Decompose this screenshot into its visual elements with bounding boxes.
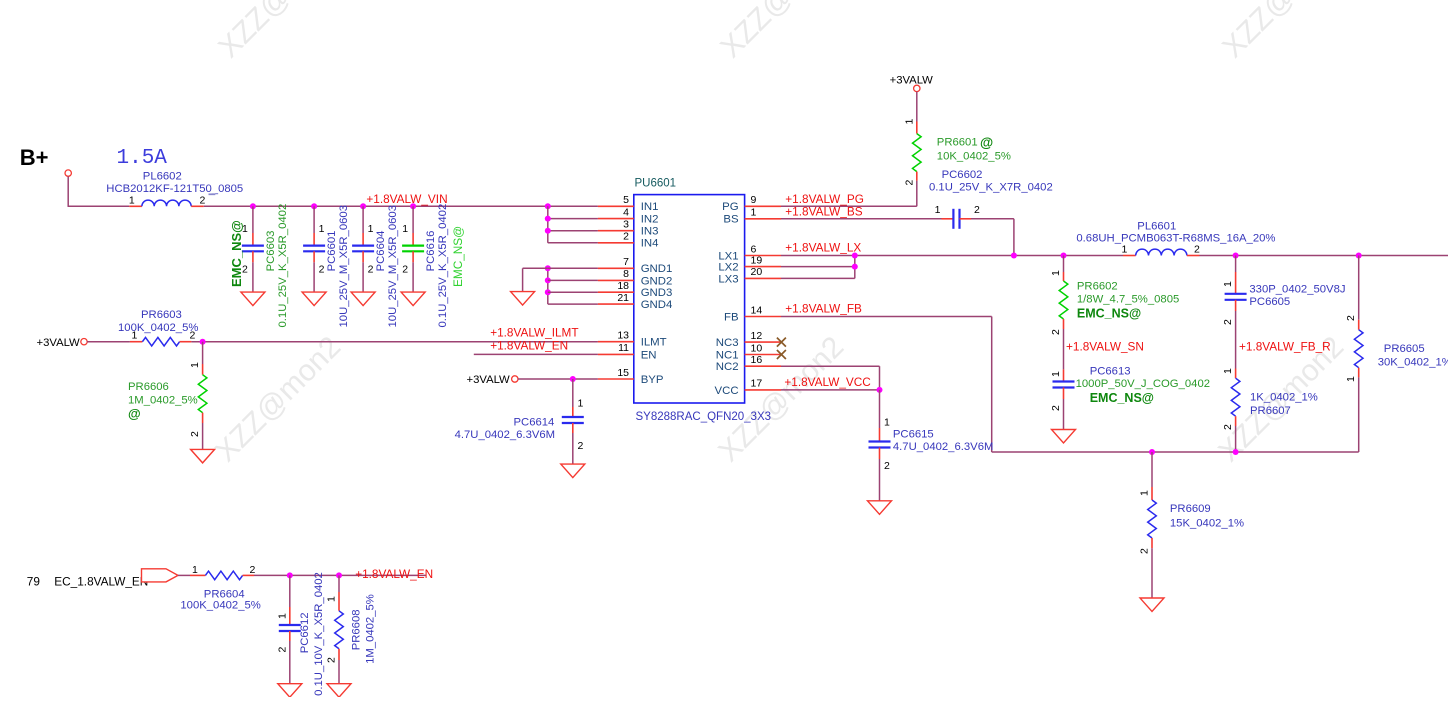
svg-text:2: 2 — [884, 460, 890, 472]
svg-text:2: 2 — [1222, 424, 1234, 430]
svg-text:1: 1 — [1222, 281, 1234, 287]
svg-text:2: 2 — [402, 264, 408, 276]
svg-text:+3VALW: +3VALW — [890, 75, 934, 87]
svg-text:2: 2 — [1050, 329, 1062, 335]
svg-text:79: 79 — [27, 575, 40, 589]
wire +1.8VALW_VIN net — [204, 205, 598, 207]
pin 6 LX1 — [718, 243, 781, 262]
svg-text:B+: B+ — [20, 145, 49, 170]
svg-text:2: 2 — [276, 647, 288, 653]
svg-text:LX3: LX3 — [718, 273, 738, 285]
capacitor PC6603 0.1U_25V_K_X5R_0402 — [229, 203, 289, 327]
svg-text:1: 1 — [368, 223, 374, 235]
wire feedback bottom bus — [992, 451, 1359, 453]
ground for PU6601 GND pins — [511, 292, 535, 306]
pin 18 GND3 — [598, 280, 672, 299]
wire +1.8VALW_FB_R net — [1235, 311, 1237, 369]
resistor PR6601 10K_0402_5% — [903, 92, 1011, 186]
svg-text:1: 1 — [1139, 490, 1151, 496]
svg-text:10K_0402_5%: 10K_0402_5% — [937, 150, 1011, 162]
svg-text:2: 2 — [623, 231, 629, 243]
resistor PR6606 1M_0402_5% — [128, 342, 207, 450]
svg-text:PR6607: PR6607 — [1250, 405, 1291, 417]
svg-text:PR6603: PR6603 — [141, 309, 182, 321]
svg-text:1: 1 — [1122, 243, 1128, 255]
svg-text:1: 1 — [903, 119, 915, 125]
svg-text:18: 18 — [617, 280, 629, 292]
svg-text:100K_0402_5%: 100K_0402_5% — [180, 600, 260, 612]
svg-text:GND1: GND1 — [641, 263, 673, 275]
capacitor PC6616 0.1U_25V_K_X5R_0402 — [402, 203, 465, 327]
pin 20 LX3 — [718, 266, 781, 285]
pin 12 NC3 — [716, 330, 781, 349]
svg-text:2: 2 — [1194, 243, 1200, 255]
svg-text:15: 15 — [617, 367, 629, 379]
svg-text:100K_0402_5%: 100K_0402_5% — [118, 322, 198, 334]
svg-text:2: 2 — [1222, 319, 1234, 325]
node GND junction — [545, 289, 551, 295]
node output junctions — [1233, 253, 1239, 259]
svg-text:4: 4 — [623, 206, 629, 218]
svg-text:EMC_NS@: EMC_NS@ — [1090, 391, 1154, 405]
wire BYP net — [518, 378, 598, 380]
node VIN junction at IN pins — [545, 203, 551, 209]
svg-text:1: 1 — [326, 596, 338, 602]
svg-text:NC3: NC3 — [716, 337, 739, 349]
pin 8 GND2 — [598, 268, 672, 287]
svg-text:GND4: GND4 — [641, 299, 673, 311]
svg-text:FB: FB — [724, 311, 739, 323]
svg-text:1M_0402_5%: 1M_0402_5% — [365, 594, 377, 664]
svg-text:4.7U_0402_6.3V6M: 4.7U_0402_6.3V6M — [455, 429, 555, 441]
svg-text:2: 2 — [200, 194, 206, 206]
svg-text:+1.8VALW_LX: +1.8VALW_LX — [785, 241, 861, 255]
svg-text:19: 19 — [751, 254, 763, 266]
svg-text:2: 2 — [1050, 405, 1062, 411]
svg-text:1.5A: 1.5A — [117, 147, 168, 170]
node ILMT junction — [200, 339, 206, 345]
svg-text:2: 2 — [1345, 315, 1357, 321]
svg-text:SY8288RAC_QFN20_3X3: SY8288RAC_QFN20_3X3 — [636, 411, 772, 423]
svg-text:EMC_NS@: EMC_NS@ — [1077, 306, 1141, 320]
node VCC junction — [877, 387, 883, 393]
node LX junctions — [852, 253, 858, 259]
pin 11 EN — [598, 342, 657, 361]
svg-text:+1.8VALW_VIN: +1.8VALW_VIN — [366, 192, 447, 206]
svg-text:IN1: IN1 — [641, 201, 659, 213]
svg-text:PR6608: PR6608 — [351, 609, 363, 650]
svg-text:1: 1 — [578, 397, 584, 409]
pin 5 IN1 — [598, 194, 659, 213]
svg-text:EN: EN — [641, 349, 657, 361]
op-amp/regulator IC PU6601 SY8288RAC — [634, 178, 771, 423]
svg-text:PC6612: PC6612 — [299, 612, 311, 653]
ground for PR6606 — [191, 449, 215, 463]
svg-text:11: 11 — [618, 342, 629, 354]
wire LX2/LX3 join — [781, 266, 855, 268]
svg-text:10U_25V_M_X5R_0603: 10U_25V_M_X5R_0603 — [387, 205, 399, 327]
svg-text:+1.8VALW_FB: +1.8VALW_FB — [785, 302, 862, 316]
svg-text:1: 1 — [1050, 371, 1062, 377]
ground for PC6612 — [278, 684, 302, 698]
svg-text:PR6602: PR6602 — [1077, 281, 1118, 293]
svg-text:PC6614: PC6614 — [514, 417, 555, 429]
wire BS cap to LX — [971, 218, 1014, 220]
svg-text:+1.8VALW_BS: +1.8VALW_BS — [785, 204, 862, 218]
wire to IN3 — [548, 230, 598, 232]
node EC_1.8VALW_EN port — [27, 569, 178, 589]
svg-text:GND3: GND3 — [641, 287, 673, 299]
resistor PR6609 15K_0402_1% — [1139, 452, 1245, 598]
capacitor PC6614 4.7U_0402_6.3V6M — [455, 379, 584, 464]
svg-text:0.1U_25V_K_X7R_0402: 0.1U_25V_K_X7R_0402 — [929, 181, 1053, 193]
svg-text:20: 20 — [751, 266, 763, 278]
wire to IN2 — [548, 218, 598, 220]
svg-text:+3VALW: +3VALW — [37, 337, 81, 349]
svg-text:0.1U_25V_K_X5R_0402: 0.1U_25V_K_X5R_0402 — [277, 204, 289, 328]
pin 2 IN4 — [598, 231, 659, 250]
ground for PC6601 — [302, 292, 326, 306]
wire IN fanout vertical — [547, 206, 549, 243]
svg-text:1: 1 — [1345, 376, 1357, 382]
svg-text:2: 2 — [326, 657, 338, 663]
resistor PR6608 1M_0402_5% — [326, 575, 377, 683]
wire NC2 to VCC — [781, 365, 880, 367]
svg-text:10U_25V_M_X5R_0603: 10U_25V_M_X5R_0603 — [338, 205, 350, 327]
svg-text:+3VALW: +3VALW — [467, 374, 511, 386]
wire GND fanout vertical — [547, 268, 549, 304]
svg-text:GND2: GND2 — [641, 275, 673, 287]
svg-text:1K_0402_1%: 1K_0402_1% — [1250, 391, 1318, 403]
ground for PC6603 — [241, 292, 265, 306]
svg-text:14: 14 — [751, 304, 763, 316]
ground for PR6608 — [327, 684, 351, 698]
svg-text:BS: BS — [723, 214, 739, 226]
wire GND pin — [548, 279, 598, 281]
svg-text:1: 1 — [129, 194, 135, 206]
node GND junction — [545, 277, 551, 283]
wire B+ drop — [67, 176, 69, 206]
node +3VALW terminal at BYP — [467, 374, 519, 386]
svg-text:0.68UH_PCMB063T-R68MS_16A_20%: 0.68UH_PCMB063T-R68MS_16A_20% — [1076, 233, 1275, 245]
svg-text:1: 1 — [884, 416, 890, 428]
svg-text:2: 2 — [189, 431, 201, 437]
svg-text:2: 2 — [903, 180, 915, 186]
capacitor PC6605 330P_0402_50V8J — [1222, 256, 1346, 326]
ground for PR6609 — [1140, 598, 1164, 612]
wire GND pin — [548, 291, 598, 293]
svg-text:0.1U_10V_K_X5R_0402: 0.1U_10V_K_X5R_0402 — [313, 572, 325, 696]
svg-text:IN4: IN4 — [641, 238, 659, 250]
svg-text:1/8W_4.7_5%_0805: 1/8W_4.7_5%_0805 — [1077, 294, 1179, 306]
ground for PC6613 — [1052, 430, 1076, 444]
svg-text:PC6602: PC6602 — [942, 169, 983, 181]
ground for PC6615 — [868, 501, 892, 515]
wire +1.8VALW_FB net — [781, 316, 992, 318]
svg-text:HCB2012KF-121T50_0805: HCB2012KF-121T50_0805 — [106, 183, 243, 195]
pin 13 ILMT — [598, 330, 667, 349]
svg-text:@: @ — [128, 406, 141, 421]
wire +1.8VALW_PG net — [781, 205, 917, 207]
svg-text:+1.8VALW_EN: +1.8VALW_EN — [490, 338, 568, 352]
svg-text:1: 1 — [402, 223, 408, 235]
wire B+ to PL6602 pin1 — [68, 205, 130, 207]
svg-text:1: 1 — [192, 564, 198, 576]
svg-text:5: 5 — [623, 194, 629, 206]
svg-text:PC6615: PC6615 — [893, 429, 934, 441]
pin 7 GND1 — [598, 256, 672, 275]
resistor PR6602 1/8W_4.7_5%_0805 — [1050, 256, 1179, 336]
node +3VALW terminal left — [37, 337, 88, 349]
svg-text:2: 2 — [578, 440, 584, 452]
svg-text:PC6603: PC6603 — [265, 231, 277, 272]
capacitor PC6613 1000P_50V_J_COG_0402 — [1050, 365, 1210, 429]
svg-text:2: 2 — [368, 264, 374, 276]
svg-text:1: 1 — [189, 362, 201, 368]
svg-text:21: 21 — [617, 292, 629, 304]
svg-text:+1.8VALW_VCC: +1.8VALW_VCC — [784, 375, 871, 389]
svg-text:4.7U_0402_6.3V6M: 4.7U_0402_6.3V6M — [893, 441, 994, 453]
pin 1 BS — [723, 207, 781, 226]
svg-text:EC_1.8VALW_EN: EC_1.8VALW_EN — [54, 575, 148, 589]
svg-text:+1.8VALW_EN: +1.8VALW_EN — [355, 567, 433, 581]
svg-text:+1.8VALW_SN: +1.8VALW_SN — [1066, 340, 1144, 354]
node +3VALW terminal top — [890, 75, 934, 92]
svg-text:2: 2 — [1139, 548, 1151, 554]
ground for PC6616 — [401, 292, 425, 306]
resistor PR6604 100K_0402_5% — [178, 564, 261, 612]
capacitor PC6604 10U_25V_M_X5R_0603 — [352, 203, 399, 327]
svg-text:2: 2 — [250, 564, 256, 576]
wire +1.8VALW_VCC net — [781, 389, 880, 391]
svg-text:BYP: BYP — [641, 374, 664, 386]
wire GND1 to ground — [523, 267, 548, 269]
svg-text:VCC: VCC — [715, 385, 739, 397]
svg-text:2: 2 — [190, 330, 196, 342]
node GND junction — [545, 265, 551, 271]
node B+ terminal — [20, 145, 72, 176]
svg-text:PL6602: PL6602 — [143, 170, 182, 182]
wire +1.8VALW_SN net — [1063, 329, 1065, 369]
svg-text:16: 16 — [751, 354, 763, 366]
capacitor PC6612 0.1U_10V_K_X5R_0402 — [276, 572, 325, 696]
svg-text:30K_0402_1%: 30K_0402_1% — [1378, 356, 1448, 368]
svg-text:2: 2 — [319, 264, 325, 276]
svg-text:PR6604: PR6604 — [204, 588, 245, 600]
wire +1.8VALW_EN bottom net — [254, 574, 426, 576]
node bottom bus junctions — [1149, 449, 1155, 455]
pin 15 BYP — [598, 367, 664, 386]
svg-text:8: 8 — [623, 268, 629, 280]
pin 3 IN3 — [598, 219, 659, 238]
svg-text:1: 1 — [319, 223, 325, 235]
svg-text:EMC_NS@: EMC_NS@ — [229, 220, 244, 287]
svg-text:17: 17 — [751, 378, 763, 390]
capacitor PC6615 4.7U_0402_6.3V6M — [869, 390, 994, 501]
pin 19 LX2 — [718, 254, 781, 273]
resistor PR6603 100K_0402_5% — [87, 309, 198, 346]
node BYP junction — [570, 376, 576, 382]
svg-text:1: 1 — [276, 613, 288, 619]
svg-text:PU6601: PU6601 — [635, 178, 677, 190]
resistor PR6607 1K_0402_1% — [1222, 368, 1318, 452]
svg-text:PR6605: PR6605 — [1384, 343, 1425, 355]
svg-text:1: 1 — [1222, 368, 1234, 374]
svg-text:7: 7 — [623, 256, 629, 268]
svg-text:NC1: NC1 — [716, 349, 739, 361]
svg-text:1: 1 — [1050, 270, 1062, 276]
svg-text:15K_0402_1%: 15K_0402_1% — [1170, 517, 1244, 529]
pin 16 NC2 — [716, 354, 781, 373]
ground for PC6614 — [561, 464, 585, 478]
wire ILMT net — [191, 341, 598, 343]
svg-text:IN3: IN3 — [641, 226, 659, 238]
pin 4 IN2 — [598, 206, 659, 225]
svg-text:PC6601: PC6601 — [326, 231, 338, 272]
svg-text:PC6605: PC6605 — [1249, 296, 1290, 308]
svg-text:PR6606: PR6606 — [128, 381, 169, 393]
svg-text:1M_0402_5%: 1M_0402_5% — [128, 395, 198, 407]
inductor PL6601 0.68UH — [1076, 221, 1275, 256]
no-connect X on NC1 — [777, 350, 786, 359]
capacitor PC6602 0.1U_25V_K_X7R_0402 — [929, 169, 1053, 229]
wire to IN4 — [548, 242, 598, 244]
svg-text:PR6609: PR6609 — [1170, 503, 1211, 515]
wire +1.8VALW_BS net — [781, 218, 942, 220]
node EN junctions — [287, 572, 293, 578]
svg-text:EMC_NS@: EMC_NS@ — [451, 226, 465, 287]
svg-text:PC6616: PC6616 — [425, 231, 437, 272]
svg-text:1: 1 — [132, 330, 138, 342]
svg-text:PR6601: PR6601 — [937, 137, 978, 149]
svg-text:PL6601: PL6601 — [1137, 221, 1176, 233]
svg-text:@: @ — [980, 135, 993, 150]
svg-text:13: 13 — [617, 330, 629, 342]
svg-text:PG: PG — [722, 201, 739, 213]
pin 17 VCC — [715, 378, 781, 397]
svg-text:1: 1 — [935, 204, 941, 216]
pin 9 PG — [722, 194, 781, 213]
pin 14 FB — [724, 304, 781, 323]
svg-text:LX2: LX2 — [718, 262, 738, 274]
svg-text:NC2: NC2 — [716, 361, 739, 373]
svg-text:0.1U_25V_K_X5R_0402: 0.1U_25V_K_X5R_0402 — [437, 204, 449, 328]
svg-text:12: 12 — [751, 330, 763, 342]
svg-text:2: 2 — [974, 204, 980, 216]
svg-text:9: 9 — [751, 194, 757, 206]
svg-text:ILMT: ILMT — [641, 337, 667, 349]
no-connect X on NC3 — [777, 338, 786, 347]
svg-text:PC6613: PC6613 — [1090, 365, 1131, 377]
wire GND pin — [548, 303, 598, 305]
label artifact underscore near PL6602 pin 2 — [209, 193, 216, 195]
svg-text:330P_0402_50V8J: 330P_0402_50V8J — [1249, 283, 1345, 295]
wire GND pin — [548, 267, 598, 269]
svg-text:+1.8VALW_FB_R: +1.8VALW_FB_R — [1239, 340, 1331, 354]
svg-text:1000P_50V_J_COG_0402: 1000P_50V_J_COG_0402 — [1076, 378, 1210, 390]
wire +1.8VALW output net — [1200, 255, 1448, 257]
ground for PC6604 — [351, 292, 375, 306]
svg-text:PC6604: PC6604 — [375, 231, 387, 272]
wire +1.8VALW_EN net to pin 11 — [474, 353, 598, 355]
svg-text:10: 10 — [751, 342, 763, 354]
svg-text:3: 3 — [623, 219, 629, 231]
pin 21 GND4 — [598, 292, 672, 311]
inductor PL6602 — [106, 170, 243, 206]
wire +1.8VALW_LX net — [781, 255, 1123, 257]
svg-text:IN2: IN2 — [641, 214, 659, 226]
capacitor PC6601 10U_25V_M_X5R_0603 — [303, 203, 350, 327]
resistor PR6605 30K_0402_1% — [1345, 256, 1448, 453]
svg-text:1: 1 — [751, 207, 757, 219]
pin 10 NC1 — [716, 342, 781, 361]
